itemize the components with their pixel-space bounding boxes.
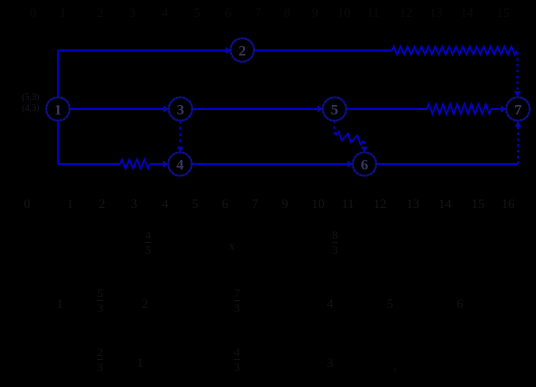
wire dotted vertical into node 7 from bottom: [517, 127, 519, 165]
wire 3-5: [192, 108, 318, 110]
node 4 circle: [168, 152, 191, 175]
arrow into node 6 from top: [361, 147, 368, 153]
wire R2 to node 7: [491, 108, 501, 110]
arrow into node 4 from top: [177, 147, 184, 153]
wire 5-6 dotted start: [333, 121, 335, 135]
wire 6-7 elbow: [376, 163, 518, 165]
svg-text:7: 7: [514, 103, 522, 119]
svg-text:2: 2: [239, 44, 247, 60]
arrow into node 7 from left: [501, 105, 507, 112]
wire 1-3: [70, 108, 164, 110]
arrow into node 7 from top: [514, 91, 521, 97]
wire dotted vertical into node 7 from top: [516, 53, 518, 92]
table row 3: [97, 345, 103, 374]
table header row: [0, 196, 536, 214]
node 5 circle: [323, 97, 346, 120]
arrow into node 5: [317, 105, 323, 112]
wire R3 to node 4: [150, 163, 163, 165]
arrow into node 4 from left: [163, 160, 169, 167]
svg-text:3: 3: [177, 103, 185, 119]
node 3 circle: [169, 97, 192, 120]
svg-text:4: 4: [176, 158, 184, 174]
wire 5-6 dotted end: [363, 142, 365, 147]
resistor R4 (edge 5-6, diagonal): [336, 132, 364, 145]
value label left of node 1: [22, 92, 39, 114]
wire 5-7: [347, 108, 427, 110]
arrow into node 2: [226, 47, 232, 54]
table row 2: [57, 296, 64, 312]
arrow into node 7 from bottom: [514, 121, 521, 127]
wire 1-2 elbow: [58, 51, 226, 98]
resistor R2 (edge 5-7): [427, 104, 491, 114]
svg-text:5: 5: [331, 103, 339, 119]
node 1 circle: [46, 97, 69, 120]
wire 1-4 elbow: [58, 121, 120, 164]
node 7 circle: [506, 97, 529, 120]
resistor R1 (top, edge 2-7): [392, 47, 517, 55]
table row 1: [145, 228, 151, 257]
node 6 circle: [353, 152, 376, 175]
node 2 circle: [231, 38, 254, 61]
arrow into node 6 from left: [347, 160, 353, 167]
arrow into node 3: [163, 105, 169, 112]
wire 2-7 top horizontal: [254, 50, 392, 52]
node list header row: [0, 5, 536, 23]
svg-text:6: 6: [361, 158, 369, 174]
wire 4-6: [192, 163, 348, 165]
wire 3-4 dashed vertical: [179, 121, 181, 146]
svg-text:1: 1: [54, 103, 62, 119]
resistor R3 (edge 1-4): [120, 160, 150, 169]
